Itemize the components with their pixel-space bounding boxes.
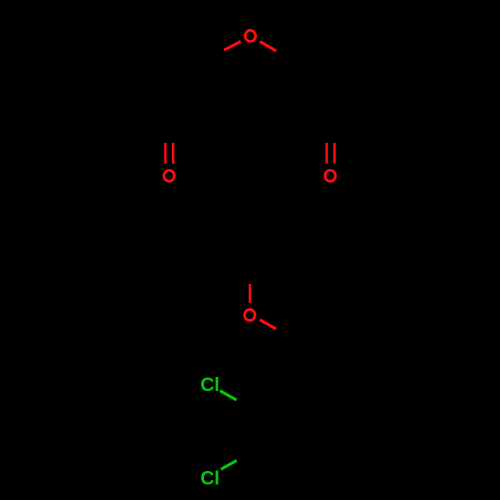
bond Cl2-C (lower chlorine half-bond, green) <box>221 461 237 470</box>
bond O1-C6 (ring oxygen right half-bond, red) <box>260 41 276 51</box>
svg-text:Cl: Cl <box>200 375 219 396</box>
bond C=O left ketone double bond (red halves, two parallel lines) <box>164 143 166 164</box>
atom O1 (pyran ring oxygen label) <box>245 30 255 41</box>
carbon skeleton (black bonds, invisible on black background) <box>141 48 359 490</box>
bond C(aryl)-O4 (ether vertical half-bond, red) <box>249 284 251 303</box>
svg-text:Cl: Cl <box>200 468 219 489</box>
atom O3 (right ketone oxygen label) <box>325 170 335 181</box>
bond C=O right ketone double bond (red halves, two parallel lines) <box>326 143 328 164</box>
atom O4 (ether oxygen label) <box>245 310 255 321</box>
bond Cl1-C (upper chlorine half-bond, green) <box>220 391 237 400</box>
bond O4-CH2 (ether diagonal half-bond, red) <box>260 320 276 329</box>
atom O2 (left ketone oxygen label) <box>164 170 174 181</box>
bond O1-C2 (ring oxygen left half-bond, red) <box>224 41 241 50</box>
